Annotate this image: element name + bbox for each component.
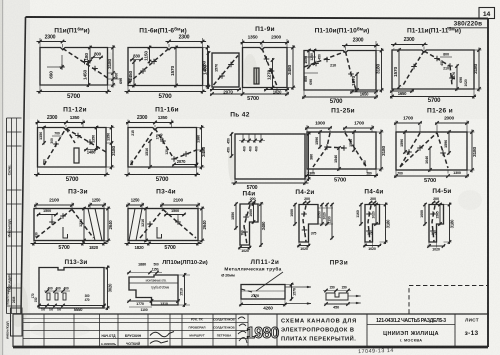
panel P1i slab [40,48,108,86]
panel P1-42 bottom dim [234,179,236,185]
panel P1-11i bottom dims [391,89,393,99]
panel P1-12i slab [38,128,107,168]
panel P1-12i bottom dim [37,167,39,177]
panel P1-9i top dims [241,42,265,44]
panel P1-16i right dims [197,127,205,129]
panel P1-9i small slab [212,53,239,87]
panel P13-3i bottom dims [38,305,106,307]
panel P4i dims [235,203,237,230]
panel P1i bottom dim 5700 [39,85,41,94]
scan smudges [8,283,28,327]
left strip bottom box [11,308,23,336]
panel P3-4i bottom dims [127,241,129,247]
panel P1-11i slab [392,50,474,89]
panel LP10i figure [129,275,178,305]
panel P1-9i bottom dims [242,88,244,96]
panel P1-25i slab [307,132,376,169]
panel P3-3i inner dims [51,215,53,223]
panel P3-3i top dims [34,204,74,206]
panel P1-26i slab [396,132,467,170]
panel P1-12i inner dims [43,126,45,145]
panel P1-26i right dims [467,131,475,133]
panel P1-6i channel dashed [128,49,169,84]
panel P1-12i right dims [106,127,115,129]
panel P1-9i slot [254,68,259,84]
scan noise overlay [0,0,1,1]
panel P1-42 right dim [305,133,311,135]
panel P3-3i channel band [88,209,95,241]
panel P1-10i inner dims [304,56,316,58]
panel P1-9i small slab bottom dim [210,89,241,91]
panel P3-4i top dims [126,204,144,206]
panel P4-5i slab [429,205,444,243]
panel P3-3i second dim 1500 [37,214,58,216]
stamp area dashed outline [409,286,488,314]
panel P1-25i inner dims [319,131,321,149]
panel P3-4i slot [157,227,162,238]
panel P1-26i bottom dims [395,170,397,178]
panel P1-12i channel dashed [44,129,66,166]
panel P4-4i slab [365,205,380,243]
paper left edge shadow [2,0,4,355]
panel P1i channel dashed [63,49,108,79]
panel P3-4i second dim 1500 [165,214,186,216]
panel P1-11i right dims [474,49,482,51]
drawing title text [366,314,368,347]
panel LP10i bottom dims [128,300,180,302]
document number cell [454,314,456,347]
panel P4-5i dims [424,203,426,226]
panel P3-3i slab [34,209,104,241]
panel LP11-2i dims [285,286,311,288]
panel P1-11i top dim 2300 [391,44,428,46]
panel P1-16i top dims [126,122,157,124]
panel P1i inner dims [47,66,62,68]
panel P1-42 inner dims [242,134,244,143]
panel P1-26i channel dashed [400,133,420,167]
panel P3-3i slot [63,227,68,238]
panel P1-10i top dim 2300 [342,45,380,47]
panel P1i top dim 2300 [37,41,67,43]
panel P1-12i slot [74,148,79,163]
panel P3-4i channel band [129,209,135,241]
panel P1-9i slab [243,48,288,88]
panel P1-11i inner dims [398,49,400,89]
title block grid [13,313,489,315]
panel P1-26i top dims [394,122,422,124]
panel P1-16i channel dashed [131,129,155,166]
panel PR3i bottom dim [325,303,350,305]
panel P1-16i slab [128,128,197,168]
left margin table [7,117,22,119]
panel P1-25i bottom dims [306,169,308,178]
panel P1-16i bottom dim [127,167,129,177]
panel P3-3i channel dashed [36,210,72,239]
panel P13-3i slab [39,268,104,309]
panel P1-6i inner dims [130,59,143,61]
stamp 1980 [276,314,278,347]
panel P1-9i channel dashed [262,49,277,87]
panel LP11-2i bar [241,285,285,300]
panel P1-9i right dims [287,47,296,49]
panel P1-11i channel dashed [402,51,424,87]
panel P1-6i right dims [203,47,210,49]
panel P3-4i channel dashed [140,210,163,239]
panel PR3i arrows [348,295,361,297]
panel P1-6i slab [128,48,203,86]
panel P1-25i top dims [305,127,332,129]
panel PR3i figure [326,293,348,300]
page number box 14 [479,8,495,19]
panel P1-26i inner dims [404,131,406,154]
panel P3-4i inner dims [177,215,179,223]
panel P13-3i posts [47,293,50,300]
panel P1-10i bottom dims [303,90,305,99]
panel P1-12i top dims [36,122,69,124]
panel P4-2i dims [294,203,296,226]
panel LP10i right dim [178,274,190,276]
panel P3-3i bottom dims [33,241,35,247]
panel P4-2i slab [299,205,318,243]
panel P1-6i bottom dim 5700 [127,86,129,95]
panel P1-6i top dim 2300 [166,41,207,43]
panel P1-42 slab [235,134,305,179]
panel P3-4i slab [128,209,198,241]
panel P1-25i right dims [376,131,384,133]
panel P13-3i right dim [104,267,110,269]
panel P1-10i slab [304,51,376,91]
panel P4-5i channel dashed [432,205,435,241]
sheet frame [26,17,489,19]
tube leader line [256,272,283,291]
panel P1i right dims [108,47,116,49]
panel P1-10i channel dashed [304,52,345,68]
panel P1-25i channel dashed [313,133,330,167]
panel P4i slab [240,204,258,245]
panel P3-3i right dim [104,208,111,210]
panel P3-4i right dim [198,208,205,210]
panel P4-2i channel dashed [303,205,306,241]
panel P4i channel dashed [244,205,250,245]
panel P4-4i dims [360,203,362,226]
panel P4-4i channel dashed [368,205,371,241]
panel P1-10i right dims [376,50,384,52]
